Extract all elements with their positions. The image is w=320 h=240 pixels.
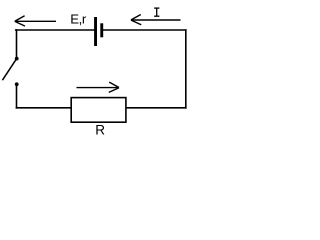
wire bottom-left (resistor to corner) <box>17 107 72 109</box>
svg-text:E,r: E,r <box>70 12 87 27</box>
arrow (current I, points left) <box>131 15 181 25</box>
wire top-right (battery short plate to top-right corner) <box>103 29 185 31</box>
switch S : open blade <box>2 59 16 80</box>
battery E,r : long plate <box>94 17 97 46</box>
svg-text:R: R <box>95 122 105 137</box>
switch S : upper contact node <box>15 57 19 61</box>
arrow (EMF direction, points left, above battery wire) <box>15 16 56 26</box>
label I (serif capital drawn with strokes) <box>154 8 159 16</box>
wire left lower (switch contact down to corner) <box>16 84 18 108</box>
wire left upper (corner down to switch contact) <box>16 30 18 59</box>
wire bottom-right (corner to resistor) <box>126 107 186 109</box>
wire top-left (corner to battery long plate) <box>16 29 94 31</box>
battery E,r : short plate <box>100 23 103 37</box>
switch S : lower contact node <box>15 82 19 86</box>
wire right side <box>185 30 187 108</box>
arrow (over resistor R, points right) <box>77 82 120 92</box>
resistor R : box <box>71 98 126 123</box>
